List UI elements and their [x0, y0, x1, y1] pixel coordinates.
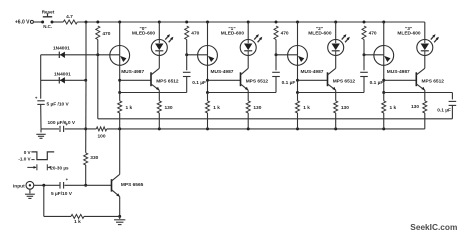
svg-text:130: 130	[411, 104, 419, 110]
svg-text:0.1 µF: 0.1 µF	[192, 80, 206, 86]
svg-text:MLED-600: MLED-600	[221, 30, 245, 36]
svg-text:MUS-4987: MUS-4987	[301, 69, 324, 75]
svg-text:MUS-4987: MUS-4987	[387, 69, 410, 75]
svg-text:1 k: 1 k	[126, 105, 133, 111]
svg-text:130: 130	[341, 105, 349, 111]
svg-text:5 µF /10 V: 5 µF /10 V	[47, 102, 70, 108]
svg-text:20-30 µs: 20-30 µs	[50, 166, 69, 171]
svg-text:MPS 6512: MPS 6512	[333, 78, 356, 84]
svg-text:1 k: 1 k	[390, 105, 397, 111]
svg-text:100 µF/6.0 V: 100 µF/6.0 V	[48, 120, 76, 126]
svg-text:0.1 µF: 0.1 µF	[282, 80, 296, 86]
svg-text:1 k: 1 k	[213, 105, 220, 111]
svg-text:0.1 µF: 0.1 µF	[370, 80, 384, 86]
svg-text:470: 470	[102, 31, 110, 37]
svg-text:470: 470	[191, 30, 199, 36]
svg-text:+: +	[35, 95, 38, 100]
svg-text:MPS 6565: MPS 6565	[121, 182, 144, 188]
svg-text:SeekIC.com: SeekIC.com	[410, 222, 457, 232]
svg-text:1 k: 1 k	[74, 219, 81, 225]
svg-text:470: 470	[281, 30, 289, 36]
svg-text:MUS-4987: MUS-4987	[121, 69, 144, 75]
svg-text:-1.0 V: -1.0 V	[18, 157, 31, 162]
svg-text:130: 130	[165, 105, 173, 111]
svg-text:1N4001: 1N4001	[54, 72, 71, 78]
svg-text:130: 130	[253, 105, 261, 111]
svg-text:100: 100	[97, 133, 105, 139]
svg-text:4.7: 4.7	[66, 14, 73, 20]
svg-text:Input: Input	[13, 183, 25, 189]
svg-text:MLED-600: MLED-600	[132, 30, 156, 36]
svg-text:1N4001: 1N4001	[53, 46, 70, 52]
svg-text:1 k: 1 k	[303, 105, 310, 111]
svg-text:0.1 µF: 0.1 µF	[437, 108, 451, 114]
svg-text:+6.0 V: +6.0 V	[15, 20, 30, 26]
svg-text:MPS 6512: MPS 6512	[422, 78, 445, 84]
svg-text:MUS-4987: MUS-4987	[211, 69, 234, 75]
svg-text:MLED-600: MLED-600	[308, 30, 332, 36]
svg-text:330: 330	[90, 155, 98, 161]
svg-text:Reset: Reset	[42, 10, 55, 15]
svg-text:MPS 6512: MPS 6512	[156, 78, 179, 84]
svg-text:MLED-600: MLED-600	[397, 30, 421, 36]
svg-text:470: 470	[369, 30, 377, 36]
svg-text:0 V: 0 V	[24, 150, 32, 155]
svg-text:N.C.: N.C.	[43, 24, 52, 29]
svg-text:5 µF/10 V: 5 µF/10 V	[51, 191, 73, 197]
svg-text:MPS 6512: MPS 6512	[246, 78, 269, 84]
